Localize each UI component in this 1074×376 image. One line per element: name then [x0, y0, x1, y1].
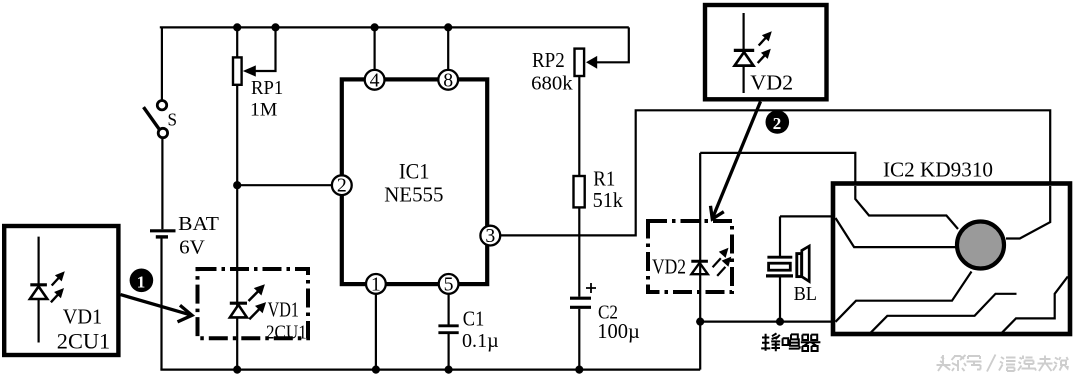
wire trace T6 (net A inside IC2)	[1006, 186, 1050, 239]
svg-text:C1: C1	[463, 307, 485, 331]
node junction RP1/pin2	[233, 181, 241, 189]
svg-text:VD1: VD1	[63, 304, 102, 328]
IC2 die circle	[957, 222, 1004, 269]
node C2 ground junction	[575, 366, 583, 374]
node pin1 ground junction	[372, 366, 380, 374]
wire trace T2 (BL top inside IC2)	[836, 218, 957, 247]
capacitor C1 0.1u	[438, 307, 498, 353]
wire C1 to ground rail	[448, 334, 450, 370]
photodiode VD1 symbol (outer box)	[30, 237, 65, 343]
node top rail junction pin8	[444, 23, 452, 31]
photodiode VD1 dash-dot box	[198, 269, 309, 343]
wire trace T5 (bottom right zigzag)	[1001, 277, 1068, 334]
wire pin8 to rail	[447, 27, 449, 69]
svg-text:0.1µ: 0.1µ	[462, 330, 499, 352]
svg-text:NE555: NE555	[384, 183, 443, 207]
wire battery to bottom rail	[160, 239, 162, 370]
wire bottom link to IC2 left	[700, 321, 833, 323]
battery BAT 6V	[150, 213, 219, 258]
svg-text:VD1: VD1	[268, 298, 299, 322]
svg-text:BAT: BAT	[178, 213, 219, 235]
wire net B to IC2 top	[700, 153, 958, 229]
svg-text:100µ: 100µ	[597, 319, 640, 343]
svg-text:IC1: IC1	[399, 159, 430, 184]
photodiode VD2 symbol (outer box)	[734, 13, 772, 93]
svg-text:1: 1	[137, 272, 146, 291]
photodiode VD2 dash-dot box	[648, 221, 732, 292]
pin 5	[439, 274, 459, 295]
node C1 ground junction	[445, 366, 453, 374]
resistor R1 51k	[574, 167, 624, 212]
svg-text:RP1: RP1	[251, 77, 283, 99]
node top rail junction x237	[233, 23, 241, 31]
pin 3	[480, 226, 500, 247]
wire trace T4 (bottom zigzag)	[870, 294, 1017, 334]
svg-text:680k: 680k	[531, 73, 573, 95]
wire trace T1 (net B inside IC2)	[855, 186, 958, 229]
svg-text:RP2: RP2	[532, 48, 565, 72]
wire rail to switch top	[161, 27, 163, 100]
photodiode VD1 outer box (2CU1)	[4, 226, 118, 355]
photodiode VD1 symbol (dash-dot box)	[230, 284, 266, 319]
arrow callout 2 to VD2 dash box	[711, 102, 761, 220]
svg-text:VD2: VD2	[750, 70, 793, 94]
svg-text:2: 2	[337, 176, 347, 197]
wire bottom ground rail	[160, 369, 700, 371]
callout 2 marker	[766, 110, 790, 134]
wire trace T3 (BL bottom to die)	[836, 272, 972, 322]
svg-text:IC2 KD9310: IC2 KD9310	[883, 158, 993, 182]
wire RP2 wiper feed from rail	[586, 27, 629, 68]
wire BL top to IC2 left	[780, 215, 833, 217]
node top rail junction x275 (RP1 wiper)	[271, 23, 279, 31]
pin 4	[365, 70, 385, 91]
svg-text:6V: 6V	[179, 236, 205, 258]
potentiometer RP1	[233, 27, 283, 120]
wire switch to battery	[161, 138, 163, 230]
svg-text:BL: BL	[794, 283, 817, 305]
wire VD2 column (net through dash box to ground)	[699, 153, 701, 370]
node junction VD2 column bottom	[696, 318, 704, 326]
wire top supply rail	[161, 27, 629, 28]
svg-text:5: 5	[444, 274, 454, 295]
wire R1 to C2	[578, 207, 580, 296]
svg-text:2: 2	[773, 114, 782, 133]
wire pin3 output net	[501, 110, 1050, 238]
watermark (light gray)	[937, 355, 1069, 372]
label buzzer (Chinese)	[761, 333, 820, 351]
pin 2	[332, 175, 352, 196]
svg-text:8: 8	[443, 70, 453, 91]
switch S	[144, 101, 178, 138]
wire BL top column	[779, 216, 781, 256]
wire pin2 to RP1 column	[237, 184, 331, 186]
wire RP2 to R1	[578, 76, 580, 176]
wire BL bottom column	[779, 278, 781, 322]
photodiode VD2 symbol (dash-dot box)	[691, 248, 731, 276]
potentiometer RP2 680k	[531, 48, 584, 94]
wire pin4 to rail	[374, 27, 376, 69]
wire RP1 bottom column down to ground rail	[236, 85, 238, 370]
pin 1	[366, 274, 386, 295]
IC2 KD9310 box	[833, 158, 1070, 335]
photodiode VD2 outer box	[705, 5, 827, 99]
svg-text:3: 3	[485, 226, 495, 247]
wire pin5 to C1	[448, 295, 450, 325]
arrow callout 1 to VD1 dash box	[121, 295, 193, 322]
svg-text:1M: 1M	[250, 99, 277, 120]
node top rail junction pin4	[371, 23, 379, 31]
svg-text:2CU1: 2CU1	[57, 328, 110, 353]
pin 8	[438, 70, 458, 91]
wire C2 to ground rail	[578, 309, 580, 370]
op-amp IC1 NE555 box	[342, 79, 487, 284]
wire pin1 to ground rail	[375, 295, 377, 370]
svg-text:VD2: VD2	[652, 255, 686, 279]
svg-text:4: 4	[370, 70, 380, 91]
callout 1 marker	[130, 269, 154, 293]
capacitor C2 100u	[570, 283, 640, 343]
svg-text:51k: 51k	[593, 188, 624, 212]
node junction RP1 column at ground	[233, 366, 241, 374]
svg-text:S: S	[168, 110, 178, 130]
svg-text:1: 1	[371, 274, 381, 295]
svg-text:2CU1: 2CU1	[266, 321, 307, 343]
node junction BL bottom	[776, 318, 784, 326]
speaker BL	[766, 246, 817, 305]
